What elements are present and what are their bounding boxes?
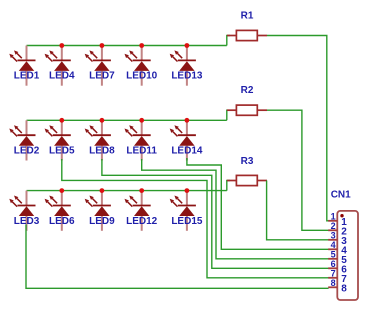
LED LED11 xyxy=(125,120,158,160)
svg-text:LED11: LED11 xyxy=(126,146,157,157)
svg-text:R1: R1 xyxy=(241,11,254,22)
pin stub 2 xyxy=(328,229,337,231)
pin stub 7 xyxy=(328,277,337,279)
junction row2 at LED8 xyxy=(100,118,105,123)
svg-text:R2: R2 xyxy=(241,85,254,96)
svg-text:8: 8 xyxy=(341,284,347,295)
svg-text:LED6: LED6 xyxy=(49,216,75,227)
junction row2 at LED5 xyxy=(59,118,64,123)
svg-text:LED7: LED7 xyxy=(89,71,115,82)
wire step from row bus to R2 xyxy=(227,110,230,120)
svg-text:LED10: LED10 xyxy=(126,71,158,82)
svg-text:LED15: LED15 xyxy=(171,216,203,227)
resistor R2 xyxy=(227,105,267,115)
LED LED14 xyxy=(170,120,203,160)
pin stub 1 xyxy=(328,220,337,222)
junction row1 at LED13 xyxy=(185,43,190,48)
pin stub 8 xyxy=(328,286,337,288)
svg-text:CN1: CN1 xyxy=(331,190,351,201)
wire LED8 anode to CN1 pin6 xyxy=(102,159,329,268)
junction row1 at LED10 xyxy=(139,43,144,48)
junction row2 at LED11 xyxy=(139,118,144,123)
svg-text:LED4: LED4 xyxy=(49,71,75,82)
LED LED7 xyxy=(85,46,115,86)
resistor R1 xyxy=(227,30,267,40)
wire step from row bus to R3 xyxy=(227,181,230,191)
svg-text:5: 5 xyxy=(331,250,336,260)
pin stub 5 xyxy=(328,258,337,260)
svg-text:LED3: LED3 xyxy=(14,216,40,227)
wire LED3 anode to CN1 pin8 xyxy=(26,225,329,289)
svg-text:4: 4 xyxy=(331,240,336,250)
svg-text:7: 7 xyxy=(331,269,336,279)
svg-text:8: 8 xyxy=(331,278,336,288)
svg-text:LED12: LED12 xyxy=(126,216,158,227)
wire row2 cathode bus xyxy=(27,119,227,121)
LED LED2 xyxy=(9,120,39,160)
svg-text:LED13: LED13 xyxy=(171,71,203,82)
pin stub 3 xyxy=(328,239,337,241)
LED LED8 xyxy=(85,120,115,160)
svg-text:LED8: LED8 xyxy=(89,146,115,157)
junction row3 at LED15 xyxy=(185,188,190,193)
LED LED13 xyxy=(170,46,203,86)
junction row1 at LED7 xyxy=(100,43,105,48)
svg-text:1: 1 xyxy=(331,212,336,222)
svg-text:6: 6 xyxy=(331,259,336,269)
LED LED9 xyxy=(85,191,115,231)
LED LED12 xyxy=(125,191,158,231)
junction row3 at LED12 xyxy=(139,188,144,193)
wire LED11 anode to CN1 pin5 xyxy=(142,159,329,259)
svg-text:LED2: LED2 xyxy=(14,146,40,157)
pin stub 6 xyxy=(328,267,337,269)
LED LED10 xyxy=(125,46,158,86)
wire LED14 anode to CN1 pin4 xyxy=(187,158,329,249)
LED LED1 xyxy=(9,46,39,86)
wire step from row bus to R1 xyxy=(227,36,230,46)
wire R2 to CN1 pin2 xyxy=(267,110,329,230)
wire R3 to CN1 pin3 xyxy=(267,181,329,240)
svg-text:LED9: LED9 xyxy=(89,216,115,227)
wire LED5 anode to CN1 pin7 xyxy=(62,159,329,278)
junction row1 at LED4 xyxy=(59,43,64,48)
resistor R3 xyxy=(227,175,267,185)
junction row3 at LED6 xyxy=(59,188,64,193)
svg-text:R3: R3 xyxy=(241,156,254,167)
svg-text:3: 3 xyxy=(331,231,336,241)
LED LED5 xyxy=(45,120,75,160)
wire R1 to CN1 pin1 xyxy=(267,36,329,221)
wire row3 cathode bus xyxy=(27,190,227,192)
connector CN1 body xyxy=(337,211,358,300)
svg-text:LED14: LED14 xyxy=(171,146,203,157)
pin stub 4 xyxy=(328,248,337,250)
svg-text:LED5: LED5 xyxy=(49,146,75,157)
junction row3 at LED9 xyxy=(100,188,105,193)
LED LED6 xyxy=(45,191,75,231)
LED LED3 xyxy=(9,191,39,231)
LED LED15 xyxy=(170,191,203,231)
svg-text:2: 2 xyxy=(331,221,336,231)
pin1 marker dot xyxy=(340,214,343,217)
LED LED4 xyxy=(45,46,75,86)
svg-text:LED1: LED1 xyxy=(14,71,40,82)
wire row1 cathode bus xyxy=(27,45,227,47)
junction row2 at LED14 xyxy=(185,118,190,123)
